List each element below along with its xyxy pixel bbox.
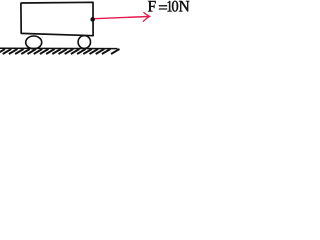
right wheel <box>78 36 90 49</box>
force arrow shaft <box>95 17 149 19</box>
force arrow head <box>143 13 149 22</box>
ground hatching <box>0 49 120 54</box>
ground line <box>0 47 118 49</box>
force label F=10N <box>148 1 189 12</box>
cart body (rectangle) <box>21 2 93 35</box>
force application dot <box>90 17 95 22</box>
left wheel <box>26 36 42 49</box>
